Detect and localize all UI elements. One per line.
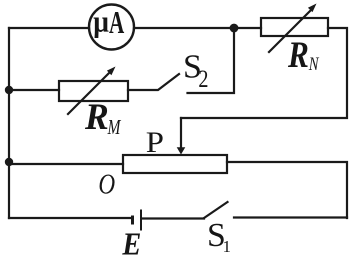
svg-text:O: O (98, 168, 115, 200)
svg-text:2: 2 (198, 65, 208, 92)
svg-text:M: M (107, 116, 122, 139)
svg-text:1: 1 (223, 237, 232, 256)
svg-text:P: P (146, 125, 164, 158)
svg-text:μ: μ (93, 5, 109, 39)
svg-text:A: A (109, 4, 125, 39)
svg-text:R: R (84, 95, 109, 137)
svg-text:E: E (121, 227, 141, 256)
svg-text:R: R (287, 34, 309, 75)
svg-text:N: N (308, 53, 320, 74)
